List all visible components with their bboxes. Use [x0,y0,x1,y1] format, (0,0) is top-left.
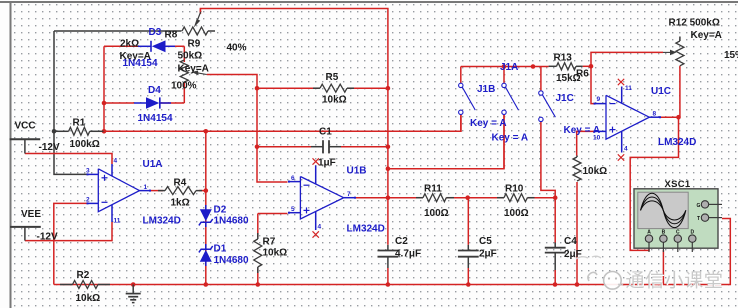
svg-text:2μF: 2μF [564,249,582,260]
junction C5 bottom [466,282,471,287]
svg-text:U1B: U1B [347,166,367,177]
svg-text:通信小课堂: 通信小课堂 [626,270,724,292]
svg-text:R9: R9 [188,38,201,49]
oscilloscope XSC1 [634,189,722,252]
label R1 [73,117,86,128]
wire scope B to rail [662,250,664,285]
svg-text:1kΩ: 1kΩ [171,197,190,208]
svg-text:G: G [697,203,701,209]
svg-text:B: B [662,229,666,235]
svg-text:1N4680: 1N4680 [214,215,249,226]
svg-text:VEE: VEE [21,209,41,220]
svg-text:U1A: U1A [143,159,163,170]
wire J1A bottom lead [503,115,505,169]
label D1 [214,243,227,254]
svg-text:LM324D: LM324D [658,137,696,148]
svg-text:D3: D3 [149,27,162,38]
potentiometer R8 [182,9,215,36]
U1C pin11 x [618,79,624,85]
svg-text:6: 6 [291,175,295,182]
junction ground [131,282,136,287]
wire ground rail [54,219,731,285]
label VCC -12V [39,142,60,153]
potentiometer R9 [180,60,206,82]
label R9 value [178,51,203,62]
svg-text:C4: C4 [564,236,577,247]
svg-text:100kΩ: 100kΩ [70,139,100,150]
op-amp U1B [288,166,356,231]
label D4 [148,85,161,96]
capacitor C2 [378,251,399,257]
label U1C [651,86,671,97]
wire J1A to node B [388,115,504,169]
svg-text:R13: R13 [554,53,573,64]
label VEE [21,209,41,220]
svg-text:4: 4 [114,158,118,165]
label R11 [424,184,442,195]
wire R9 wiper to node A [207,75,288,183]
junction D4 line [102,101,107,106]
label J1C key [564,125,601,136]
label R11 value [424,208,449,219]
wire R7 bottom lead [257,269,259,285]
watermark logo and text [576,256,725,292]
svg-text:Key = A: Key = A [564,125,601,136]
wire U1C pin10 to R6 [577,131,595,155]
svg-text:7: 7 [347,191,351,198]
U1B pin11 x [313,158,319,164]
svg-text:4.7μF: 4.7μF [395,249,421,260]
diode D2 [199,205,213,227]
svg-text:J1A: J1A [500,62,518,73]
switch J1C [539,91,556,122]
svg-text:5: 5 [291,206,295,213]
label R9 percent [171,81,197,92]
wire C4 leads [554,198,556,285]
svg-text:50kΩ: 50kΩ [178,51,203,62]
power VEE [10,227,41,241]
junction U1C output [676,115,681,120]
label R13 value [556,73,581,84]
svg-text:VCC: VCC [15,121,36,132]
label U1B [347,166,367,177]
label J1A [500,62,518,73]
label R2 [77,270,90,281]
svg-text:15%: 15% [724,50,738,61]
label R4 [174,177,187,188]
label D3 [149,27,162,38]
label R13 [554,53,573,64]
svg-text:R6: R6 [576,69,589,80]
svg-text:D1: D1 [214,243,227,254]
junction R4 top [204,129,209,134]
wire VCC to U1A pin4 [25,154,112,165]
label D3 value [123,58,158,69]
svg-text:100%: 100% [171,81,197,92]
wire R13 node up to R12 wiper [591,52,663,66]
label R4 value [171,197,190,208]
label C4 value [564,249,582,260]
junction R4 right [204,188,209,193]
junction C2 bottom [386,282,391,287]
potentiometer R12 [663,37,684,66]
junction R7 bottom [255,282,260,287]
resistor R10 [497,194,535,202]
label XSC1 [665,179,691,190]
svg-text:R2: R2 [77,270,90,281]
label C1 [319,127,332,138]
svg-text:Key = A: Key = A [492,132,529,143]
wire J1B bottom lead [460,115,462,131]
svg-text:3: 3 [86,168,90,175]
wire R7 to U1B pin5 [258,214,288,238]
svg-text:1N4154: 1N4154 [138,113,173,124]
resistor R7 [254,233,262,273]
wire U1A output [151,190,206,192]
wire R12 bottom [679,66,681,117]
wire switch rail [461,67,549,84]
U1C pin4 x [618,154,624,160]
label U1C part [658,137,696,148]
svg-text:C1: C1 [319,127,332,138]
svg-text:8: 8 [653,110,657,117]
svg-text:R8: R8 [165,30,178,41]
junction C1 left [255,144,260,149]
wire D3 line [104,46,184,62]
label J1C [556,93,574,104]
label R10 [505,184,524,195]
svg-text:1N4154: 1N4154 [123,58,158,69]
label R2 value [76,293,101,304]
op-amp U1C [594,87,662,153]
svg-text:11: 11 [114,218,121,225]
label C2 value [395,249,421,260]
label C1 value [318,158,336,169]
label C5 value [479,249,497,260]
label VEE -12V [37,231,58,242]
label R6 value [583,166,608,177]
ground [126,285,141,303]
label C2 [395,236,408,247]
U1C pin numbers [593,85,657,152]
diode D1 [199,244,213,266]
svg-text:10kΩ: 10kΩ [263,248,288,259]
label J1A key [492,132,529,143]
svg-text:100Ω: 100Ω [504,208,529,219]
resistor R4 [158,187,202,195]
wire R5 line [257,87,388,89]
svg-text:D2: D2 [214,205,227,216]
label R7 value [263,248,288,259]
junction D1 bottom rail [204,282,209,287]
svg-text:2μF: 2μF [479,249,497,260]
junction C1 right [386,144,391,149]
capacitor C5 [458,251,479,257]
svg-text:10kΩ: 10kΩ [322,95,347,106]
svg-text:R5: R5 [326,72,339,83]
wire D4 line [104,82,184,103]
wire R6 bottom lead [576,182,578,285]
wire J1C bottom jog [541,122,555,198]
svg-text:LM324D: LM324D [143,215,181,226]
label R7 [263,236,276,247]
junction R5 right [386,86,391,91]
svg-text:4: 4 [624,145,628,152]
svg-text:D: D [690,229,694,235]
junction R1 right [102,129,107,134]
wire C1 line [257,146,388,148]
svg-text:R4: R4 [174,177,187,188]
capacitor C4 [545,248,566,253]
resistor R2 [60,281,110,289]
svg-text:R7: R7 [263,236,276,247]
label U1A part [143,215,181,226]
junction J1A line [386,166,391,171]
label R12 [669,18,720,29]
svg-text:11: 11 [625,85,632,92]
svg-text:1N4680: 1N4680 [214,255,249,266]
wire C5 leads [467,198,469,285]
label J1B key [470,118,507,129]
svg-text:C2: C2 [395,236,408,247]
svg-text:1μF: 1μF [318,158,336,169]
junction C4 bottom [553,282,558,287]
junction J1A top [502,64,507,69]
svg-text:R12 500kΩ: R12 500kΩ [669,18,720,29]
svg-text:XSC1: XSC1 [665,179,691,190]
label D1 value [214,255,249,266]
svg-text:J1C: J1C [556,93,574,104]
svg-text:Key=A: Key=A [178,64,209,75]
label D2 value [214,215,249,226]
svg-text:C: C [676,229,680,235]
junction R13 right [589,64,594,69]
junction switch rail [531,64,536,69]
diode D4 [134,97,171,109]
junction C4 top [553,195,558,200]
wire R13 node down to U1C pin9 [591,66,595,103]
svg-text:C5: C5 [479,236,492,247]
wire VEE to U1A pin11 [25,222,112,241]
wire R8 wiper to U1B feedback node [200,9,388,89]
svg-text:LM324D: LM324D [347,224,385,235]
svg-text:T: T [697,216,700,222]
diode D3 [138,40,175,52]
power VCC [10,139,41,153]
U1A pin numbers [86,158,148,225]
junction U1B output [386,195,391,200]
label R9 [188,38,201,49]
resistor R13 [549,63,583,70]
wire node R1-right vertical [103,46,105,131]
resistor R1 [54,127,104,135]
svg-text:2: 2 [86,196,90,203]
resistor R6 [573,156,581,182]
label R5 value [322,95,347,106]
svg-text:R11: R11 [424,184,442,195]
svg-text:10kΩ: 10kΩ [76,293,101,304]
label D4 value [138,113,173,124]
label R1 value [70,139,100,150]
label R5 [326,72,339,83]
junction black R1 left [52,129,57,134]
wire J1C top lead [540,67,542,91]
label R8 value [120,39,139,50]
label D2 [214,205,227,216]
junction R6 bottom [575,282,580,287]
label VCC [15,121,36,132]
svg-text:-12V: -12V [39,142,60,153]
wire R1 line to J1B [104,115,462,131]
svg-text:10kΩ: 10kΩ [583,166,608,177]
label R8 percent [227,43,247,54]
svg-text:D4: D4 [148,85,161,96]
wire U1B output [355,197,388,199]
junction C5 top [465,195,470,200]
U1B pin numbers [291,175,351,230]
svg-text:-12V: -12V [37,231,58,242]
label C4 [564,236,577,247]
capacitor C1 [311,140,341,153]
svg-text:A: A [647,229,651,235]
label R12 percent [724,50,738,61]
wire D1 D2 branch [205,131,207,284]
svg-text:Key=A: Key=A [691,30,722,41]
switch J1B [459,83,476,114]
svg-text:Key = A: Key = A [470,118,507,129]
wire U1A pin2 feedback [54,203,88,284]
label R6 [576,69,589,80]
label J1B [477,84,495,95]
wire black net R8-R1-U1A pin3 [54,31,182,174]
label C5 [479,236,492,247]
label R9 key [178,64,209,75]
resistor R5 [313,84,354,92]
wire R11 R10 line [388,197,555,199]
label U1A [143,159,163,170]
wire U1C output to scope A [630,117,678,250]
label R10 value [504,208,529,219]
resistor R11 [416,194,454,202]
label R8 key [120,51,151,62]
wire C2 leads [387,245,389,285]
label R12 key [691,30,722,41]
svg-text:4: 4 [318,223,322,230]
U1B pin4 x [313,231,319,237]
svg-text:100Ω: 100Ω [424,208,449,219]
wire R13 right node [583,65,591,67]
label R8 [165,30,178,41]
switch J1A [502,83,519,114]
svg-text:40%: 40% [227,43,247,54]
svg-text:9: 9 [597,96,601,103]
wire U1C output [660,116,679,118]
wire U1B output node vertical [387,88,389,245]
wire J1A top lead [503,67,505,83]
svg-text:U1C: U1C [651,86,671,97]
label U1B part [347,224,385,235]
svg-text:J1B: J1B [477,84,495,95]
svg-text:R10: R10 [505,184,524,195]
svg-text:1: 1 [144,184,148,191]
svg-text:2kΩ: 2kΩ [120,39,139,50]
svg-text:R1: R1 [73,117,86,128]
op-amp U1A [87,164,152,222]
junction R5 left [255,86,260,91]
